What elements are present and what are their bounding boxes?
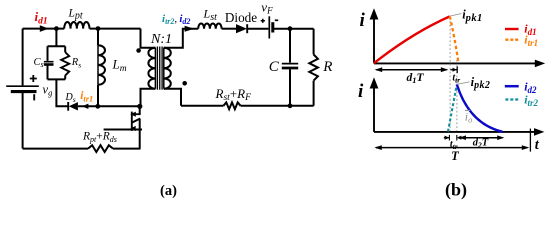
resistor Rs — [61, 46, 69, 79]
capacitor C — [282, 29, 298, 106]
wire: secondary bottom rail left — [181, 105, 223, 107]
wire: left vertical top (battery to top rail) — [22, 29, 24, 86]
resistor R (load) — [309, 29, 318, 106]
axis: top plot t-axis — [374, 60, 545, 68]
resistor Rst+RF — [223, 102, 240, 109]
svg-text:(b): (b) — [445, 179, 467, 200]
diode Ds — [68, 102, 78, 111]
svg-text:(a): (a) — [160, 183, 177, 199]
wire: left vertical bottom (battery to bottom rail) — [22, 93, 24, 149]
svg-text:Diode: Diode — [225, 10, 257, 25]
wire: vF to output node — [273, 28, 314, 30]
transformer primary winding — [148, 48, 155, 89]
battery vg — [6, 75, 39, 100]
wire: secondary top lead rise — [164, 29, 198, 48]
legend line id1 — [505, 28, 519, 30]
connector + label ipk2 — [458, 75, 491, 91]
resistor Rpt+Rds — [88, 145, 113, 152]
wire: primary top lead — [141, 29, 156, 48]
legend line id2 — [505, 85, 519, 88]
svg-text:R: R — [322, 59, 332, 75]
wire: diode to vF — [247, 28, 268, 30]
wire: top rail left segment — [23, 28, 65, 30]
svg-text:i: i — [360, 10, 366, 31]
curve id2 (blue) — [457, 85, 503, 132]
legend line itr2 — [505, 98, 519, 100]
wire: snubber exit — [56, 79, 68, 106]
battery vF (LED drop) — [261, 16, 279, 38]
transformer core — [157, 47, 162, 90]
transformer secondary winding — [164, 48, 171, 89]
node: output bottom — [288, 103, 293, 108]
axis: top plot y-axis — [370, 8, 379, 63]
gray dashed vertical at ttr end — [456, 60, 458, 131]
period end tick — [529, 129, 531, 152]
node: Lm bottom — [95, 104, 100, 109]
gray dashed vertical at peak1 — [449, 17, 451, 131]
inductor Lpt — [64, 22, 89, 29]
wire: secondary bottom rail right — [241, 105, 314, 107]
dimension marks ttr (top) — [450, 66, 457, 73]
dimension arrow d2T — [459, 135, 505, 140]
current arrow secondary — [185, 26, 195, 32]
transistor MOSFET switch — [104, 106, 142, 148]
svg-text:C: C — [269, 59, 280, 75]
capacitor Cs — [44, 46, 54, 79]
current arrow id1 — [40, 25, 49, 32]
polarity dot secondary — [182, 81, 187, 86]
inductor Lst — [198, 23, 221, 28]
dimension arrow d1T — [375, 67, 449, 72]
wire: Lst to diode — [222, 28, 236, 30]
node: snubber top — [54, 26, 59, 31]
dimension marks ttr (bottom) — [444, 135, 462, 141]
wire: top rail right segment — [90, 28, 141, 30]
legend line itr1 — [505, 39, 519, 41]
wire: Lm node to drain node — [98, 105, 140, 107]
dimension arrow T — [374, 145, 529, 150]
svg-text:i: i — [358, 81, 364, 102]
label io (gray, averaged) — [465, 109, 473, 124]
connector + label ipk1 — [450, 7, 482, 23]
node: Lm top — [96, 26, 101, 31]
current arrow itr1 — [82, 104, 88, 109]
axis: bottom plot t-axis — [374, 128, 544, 136]
wire: snubber box ties — [48, 46, 66, 79]
wire: bottom rail right — [113, 148, 141, 150]
node: switch/drain — [137, 104, 142, 109]
svg-text:N:1: N:1 — [150, 32, 172, 47]
wire: snubber entry — [55, 29, 57, 47]
curve itr1 (orange dashed) — [450, 16, 459, 63]
wire: bottom rail left — [23, 148, 88, 150]
curve itr2 (teal dashed) — [448, 85, 457, 132]
inductor Lm — [98, 29, 105, 107]
wire: Ds to Lm bottom node — [78, 105, 98, 107]
axis: bottom plot y-axis — [370, 77, 379, 132]
node: output top — [288, 26, 293, 31]
diode (output) — [236, 24, 247, 33]
wire: secondary bottom lead — [164, 89, 181, 106]
gate lead — [104, 129, 142, 131]
polarity dot primary — [136, 48, 141, 53]
curve id1 (red) — [374, 16, 450, 63]
wire: primary bottom lead — [141, 89, 156, 107]
